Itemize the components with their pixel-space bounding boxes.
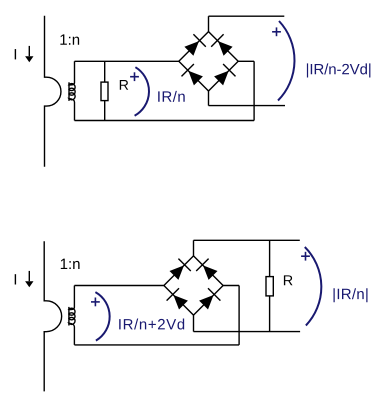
wire: resistor R (top) lower lead: [104, 101, 106, 121]
wire: top bridge - vertex down: [208, 91, 210, 106]
plus sign (output polarity, top): [272, 27, 281, 36]
diode bridge diamond wires: [164, 256, 223, 315]
wire: top bridge + vertex up: [208, 16, 210, 31]
arc: voltage IR/n (top): [135, 67, 149, 116]
label R (bottom resistor): [284, 275, 293, 285]
wire: resistor R (bottom) upper lead: [269, 240, 271, 276]
diode D1 (top bridge upper-left): [184, 34, 205, 55]
wire: top circuit + output terminal: [209, 15, 285, 17]
diode D7 (bottom bridge lower-left): [167, 288, 188, 309]
diode D2 (top bridge upper-right): [211, 34, 232, 55]
wire: bottom circuit + output rail: [194, 239, 300, 241]
label 1:n (top transformer ratio): [60, 34, 79, 44]
current arrow I (top): [25, 46, 33, 62]
transformer T2 secondary winding: [69, 286, 75, 345]
arc: output voltage |IR/n-2Vd| (top): [278, 21, 294, 101]
resistor R (top circuit): [101, 82, 108, 101]
wire: resistor R (top) upper lead: [104, 61, 106, 82]
label R (top resistor): [120, 80, 128, 90]
label I (bottom primary current): [15, 274, 16, 284]
diode D6 (bottom bridge upper-right): [196, 259, 217, 280]
arc: output voltage |IR/n| (bottom): [305, 247, 322, 326]
wire: bottom loop bottom: [74, 344, 239, 346]
wire: right side down (top loop): [253, 61, 255, 120]
diode D3 (top bridge lower-left): [182, 64, 203, 85]
wire: bottom circuit - output rail: [194, 331, 301, 333]
diode D8 (bottom bridge lower-right): [199, 288, 220, 309]
label |IR/n| (bottom output voltage): [334, 288, 368, 302]
diode bridge diamond wires: [179, 32, 238, 91]
wire: bottom bridge - vertex down: [193, 315, 195, 332]
arc: voltage IR/n+2Vd (bottom): [95, 292, 109, 341]
transformer T2 primary conductor: [44, 241, 61, 391]
plus sign (IR/n polarity, top): [130, 72, 139, 81]
wire: resistor R (bottom) lower lead: [269, 296, 271, 332]
label IR/n (top): [158, 91, 185, 102]
resistor R (bottom circuit): [266, 277, 273, 296]
wire: bottom bridge + vertex up: [193, 240, 195, 256]
wire: top loop bottom: [75, 120, 255, 122]
wire: T1 secondary top to bridge left vertex: [75, 60, 179, 62]
diode D4 (top bridge lower-right): [214, 64, 235, 85]
wire: bridge right vertex extension (top): [239, 60, 255, 62]
wire: bridge right vertex extension (bottom): [223, 285, 239, 287]
plus sign (output polarity, bottom): [301, 252, 310, 261]
transformer T1 secondary winding: [69, 61, 75, 120]
plus sign (IR/n+2Vd polarity, bottom): [91, 298, 100, 307]
diode D5 (bottom bridge upper-left): [170, 259, 191, 280]
label I (top primary current): [15, 49, 16, 59]
wire: top circuit - output terminal: [209, 105, 286, 107]
label IR/n+2Vd (bottom): [119, 319, 184, 330]
transformer T1 primary conductor: [45, 16, 61, 167]
wire: right side down (bottom loop): [238, 286, 240, 345]
current arrow I (bottom): [25, 271, 33, 287]
wire: T2 secondary top to bridge left vertex: [74, 285, 163, 287]
label 1:n (bottom transformer ratio): [61, 259, 80, 269]
label |IR/n-2Vd| (top output voltage): [307, 63, 371, 77]
